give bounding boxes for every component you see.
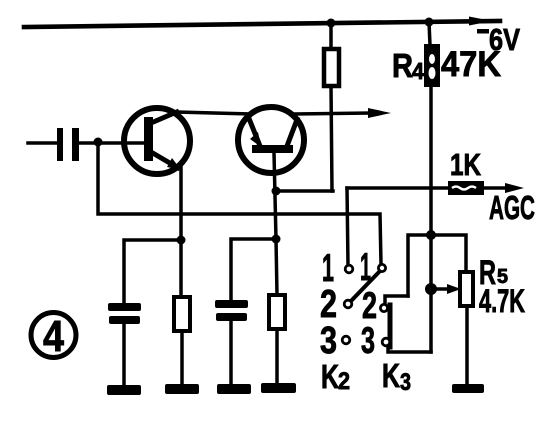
svg-text:3: 3 bbox=[361, 320, 375, 361]
svg-text:1: 1 bbox=[360, 246, 371, 289]
svg-text:4: 4 bbox=[412, 58, 424, 84]
svg-text:3: 3 bbox=[400, 369, 411, 396]
svg-text:2: 2 bbox=[338, 368, 350, 395]
svg-text:4: 4 bbox=[43, 312, 64, 361]
svg-text:K: K bbox=[321, 358, 339, 395]
svg-text:AGC: AGC bbox=[489, 189, 535, 226]
svg-text:R: R bbox=[392, 47, 413, 84]
svg-text:47K: 47K bbox=[441, 45, 501, 84]
svg-text:3: 3 bbox=[320, 320, 337, 362]
svg-text:4.7K: 4.7K bbox=[479, 283, 525, 319]
svg-text:K: K bbox=[382, 357, 400, 394]
svg-text:1K: 1K bbox=[450, 147, 481, 182]
